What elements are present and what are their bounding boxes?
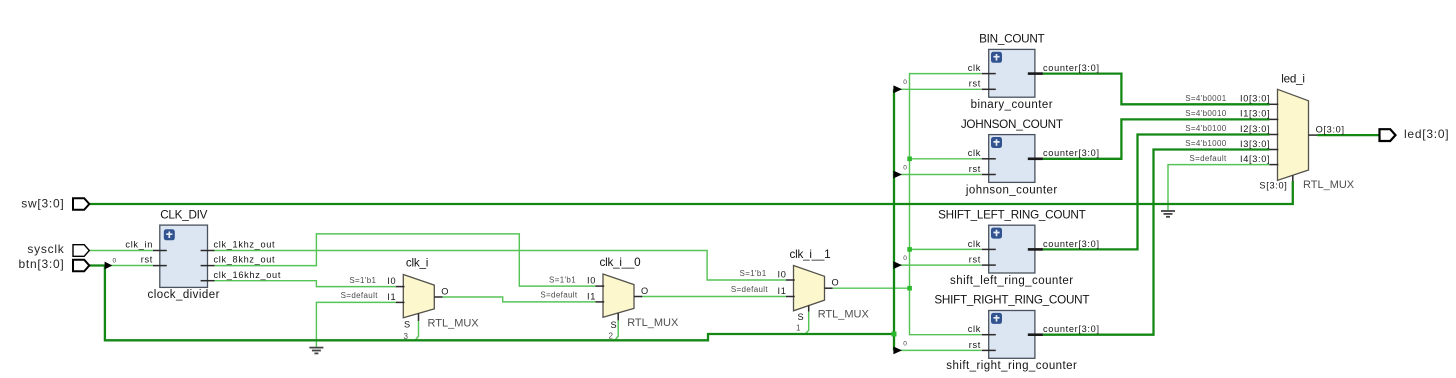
- svg-text:binary_counter: binary_counter: [971, 99, 1053, 111]
- svg-text:clk_8khz_out: clk_8khz_out: [214, 255, 276, 265]
- svg-text:counter[3:0]: counter[3:0]: [1043, 63, 1100, 73]
- svg-text:clk_1khz_out: clk_1khz_out: [214, 240, 276, 250]
- wire btn[3:0] vertical rst distribution column: [893, 89, 895, 350]
- svg-text:I1: I1: [387, 292, 396, 302]
- svg-text:S[3:0]: S[3:0]: [1259, 181, 1287, 191]
- svg-text:S=4'b0100: S=4'b0100: [1185, 124, 1227, 133]
- svg-text:I0: I0: [777, 269, 786, 279]
- svg-text:O[3:0]: O[3:0]: [1316, 124, 1345, 134]
- svg-text:S: S: [404, 320, 411, 330]
- svg-text:S=1'b1: S=1'b1: [349, 276, 376, 285]
- svg-text:clk_16khz_out: clk_16khz_out: [214, 270, 282, 280]
- wire clk_i S to btn bus: [415, 321, 418, 340]
- svg-text:counter[3:0]: counter[3:0]: [1043, 239, 1100, 249]
- block SHIFT_RIGHT_RING_COUNT shift_right_ring_counter: [934, 294, 1099, 373]
- svg-text:S=4'b1000: S=4'b1000: [1185, 139, 1227, 148]
- svg-text:3: 3: [404, 332, 409, 341]
- svg-text:I1[3:0]: I1[3:0]: [1240, 109, 1270, 119]
- svg-text:S=default: S=default: [731, 285, 769, 294]
- wire shift_right_ring_counter counter[3:0] to led_i I3: [1043, 150, 1270, 335]
- svg-text:I0: I0: [387, 276, 396, 286]
- svg-text:S=1'b1: S=1'b1: [740, 269, 767, 278]
- wire btn[0] branch to shift_right_ring_counter rst: [895, 349, 981, 351]
- block BIN_COUNT binary_counter: [968, 33, 1100, 112]
- svg-text:RTL_MUX: RTL_MUX: [1303, 179, 1355, 191]
- svg-text:I1: I1: [587, 291, 596, 301]
- svg-text:rst: rst: [141, 255, 153, 265]
- svg-text:CLK_DIV: CLK_DIV: [160, 209, 207, 222]
- svg-text:I3[3:0]: I3[3:0]: [1240, 139, 1270, 149]
- node arrow btn tap at shift_left rst: [893, 261, 902, 269]
- svg-text:counter[3:0]: counter[3:0]: [1043, 324, 1100, 334]
- svg-text:led[3:0]: led[3:0]: [1404, 127, 1449, 141]
- svg-text:clk_in: clk_in: [125, 240, 153, 250]
- svg-text:clk_i__1: clk_i__1: [790, 248, 831, 261]
- op-amp mux clk_i RTL_MUX: [341, 257, 480, 342]
- svg-text:clk_i: clk_i: [406, 257, 428, 270]
- wire btn[0] branch to binary_counter rst: [895, 88, 981, 90]
- svg-text:0: 0: [903, 164, 907, 171]
- svg-text:I0[3:0]: I0[3:0]: [1240, 94, 1270, 104]
- wire branch to johnson_counter clk: [910, 158, 982, 160]
- wire johnson_counter counter[3:0] to led_i I1: [1043, 119, 1270, 158]
- svg-text:2: 2: [609, 331, 614, 340]
- svg-text:rst: rst: [969, 79, 981, 89]
- svg-text:counter[3:0]: counter[3:0]: [1043, 148, 1100, 158]
- svg-text:SHIFT_LEFT_RING_COUNT: SHIFT_LEFT_RING_COUNT: [938, 208, 1085, 221]
- svg-text:0: 0: [903, 255, 907, 262]
- wire btn[3:0] bus: down from port, along bottom, step up, to rst column: [89, 266, 894, 341]
- svg-text:O: O: [641, 286, 649, 296]
- node arrow btn tap at johnson_counter rst: [893, 171, 902, 179]
- svg-text:clk: clk: [968, 148, 981, 158]
- svg-text:RTL_MUX: RTL_MUX: [428, 317, 480, 329]
- junction clk distribution at mux output: [907, 286, 912, 291]
- port btn[3:0] input: [18, 257, 89, 271]
- svg-text:O: O: [832, 278, 840, 288]
- svg-text:led_i: led_i: [1281, 73, 1304, 86]
- svg-text:0: 0: [113, 257, 117, 264]
- wire clk_i__1 O to clock distribution column: [833, 287, 910, 289]
- svg-text:S: S: [798, 312, 805, 322]
- wire btn[0] branch to shift_left_ring_counter rst: [895, 264, 981, 266]
- svg-text:SHIFT_RIGHT_RING_COUNT: SHIFT_RIGHT_RING_COUNT: [934, 294, 1089, 307]
- svg-text:O: O: [441, 286, 449, 296]
- wire clk_i O to clk_i__0 I1: [443, 297, 596, 302]
- svg-text:shift_left_ring_counter: shift_left_ring_counter: [950, 275, 1074, 287]
- node arrow btn tap at shift_right rst: [893, 347, 902, 355]
- svg-text:btn[3:0]: btn[3:0]: [18, 257, 64, 271]
- svg-text:shift_right_ring_counter: shift_right_ring_counter: [946, 360, 1077, 372]
- svg-text:S=4'b0001: S=4'b0001: [1185, 94, 1227, 103]
- svg-text:clk: clk: [968, 63, 981, 73]
- wire branch to shift_left_ring_counter clk: [910, 248, 982, 250]
- wire clock distribution column to counter clk pins: [910, 74, 982, 335]
- wire btn[0] branch to clock_divider rst: [106, 265, 153, 267]
- block SHIFT_LEFT_RING_COUNT shift_left_ring_counter: [938, 208, 1100, 287]
- svg-text:I4[3:0]: I4[3:0]: [1240, 154, 1270, 164]
- block U_CLK_DIV clock_divider: [125, 209, 281, 301]
- svg-text:RTL_MUX: RTL_MUX: [627, 317, 679, 329]
- op-amp mux clk_i__1 RTL_MUX: [731, 248, 870, 333]
- svg-text:S=4'b0010: S=4'b0010: [1185, 109, 1227, 118]
- svg-text:S=default: S=default: [540, 291, 578, 300]
- block JOHNSON_COUNT johnson_counter: [961, 118, 1100, 197]
- svg-text:I2[3:0]: I2[3:0]: [1240, 124, 1270, 134]
- svg-text:I0: I0: [587, 276, 596, 286]
- svg-text:1: 1: [796, 324, 801, 333]
- svg-text:0: 0: [903, 79, 907, 86]
- wire sysclk to clk_in: [89, 250, 153, 252]
- port sysclk input: [27, 242, 89, 256]
- svg-text:rst: rst: [969, 164, 981, 174]
- wire shift_left_ring_counter counter[3:0] to led_i I2: [1043, 135, 1270, 250]
- svg-text:clock_divider: clock_divider: [148, 289, 220, 301]
- ground under clk_i I1: [309, 348, 323, 354]
- junction clk distribution at shift_left clk: [907, 247, 912, 252]
- svg-text:clk_i__0: clk_i__0: [600, 256, 642, 269]
- svg-text:S: S: [611, 320, 618, 330]
- svg-text:clk: clk: [968, 324, 981, 334]
- wire binary_counter counter[3:0] to led_i I0: [1043, 74, 1270, 105]
- node arrow btn tap at binary_counter rst: [893, 85, 902, 93]
- svg-text:RTL_MUX: RTL_MUX: [818, 309, 870, 321]
- svg-text:johnson_counter: johnson_counter: [965, 184, 1058, 196]
- port led[3:0] output: [1380, 127, 1450, 141]
- node arrow btn tap at clock_divider rst: [105, 262, 113, 270]
- wire led_i I4 to ground: [1168, 165, 1270, 211]
- junction clk distribution at johnson clk: [907, 157, 912, 162]
- svg-text:S=default: S=default: [341, 291, 379, 300]
- svg-text:JOHNSON_COUNT: JOHNSON_COUNT: [961, 118, 1063, 131]
- port sw[3:0] input: [21, 197, 89, 211]
- svg-text:rst: rst: [969, 255, 981, 265]
- svg-text:I1: I1: [777, 286, 786, 296]
- ground under led_i I4: [1161, 211, 1175, 217]
- wire btn[0] branch to johnson_counter rst: [895, 174, 981, 176]
- svg-text:sw[3:0]: sw[3:0]: [21, 197, 64, 211]
- wire clk_16khz_out to clk_i I0: [215, 281, 396, 287]
- wire clk_i__1 S to btn bus: [805, 312, 808, 334]
- junction btn bus joins rst column: [892, 332, 897, 337]
- svg-text:sysclk: sysclk: [27, 242, 64, 256]
- wire clk_i__0 O to clk_i__1 I1: [642, 296, 787, 298]
- op-amp mux led_i RTL_MUX: [1185, 73, 1355, 192]
- wire clk_1khz_out to clk_i__1 I0: [215, 251, 787, 281]
- svg-text:S=1'b1: S=1'b1: [549, 275, 576, 284]
- svg-text:clk: clk: [968, 239, 981, 249]
- wire clk_i I1 to ground: [316, 302, 395, 347]
- svg-text:BIN_COUNT: BIN_COUNT: [979, 33, 1044, 46]
- svg-text:rst: rst: [969, 340, 981, 350]
- wire clk_i__0 S to btn bus: [615, 320, 618, 340]
- wire led_i O[3:0] to led port: [1317, 134, 1379, 136]
- wire clk_8khz_out to clk_i__0 I0: [215, 234, 596, 286]
- op-amp mux clk_i__0 RTL_MUX: [540, 256, 679, 340]
- wire sw[3:0] bus from sw port to led_i S pin: [89, 181, 1293, 204]
- svg-text:0: 0: [903, 340, 907, 347]
- svg-text:S=default: S=default: [1189, 154, 1227, 163]
